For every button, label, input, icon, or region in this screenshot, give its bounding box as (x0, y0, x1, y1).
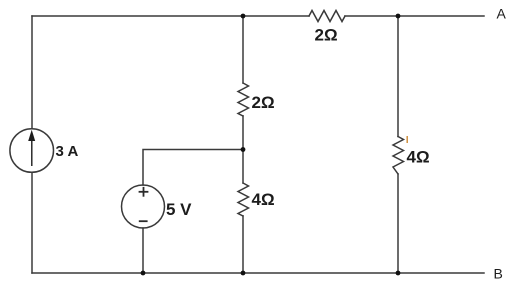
junction dot top middle node (241, 14, 246, 19)
wire R4 to bottom rail (397, 174, 399, 273)
junction dot bottom right (396, 271, 401, 276)
resistor R3 4ohm vertical (238, 183, 249, 216)
wire middle branch top (top node to R2) (242, 16, 244, 83)
wire voltage source to bottom rail (142, 228, 144, 273)
wire top-left segment (node top-left corner to resistor R1) (32, 15, 309, 17)
junction dot bottom middle (241, 271, 246, 276)
wire left branch bottom (current source to bottom rail) (31, 173, 33, 274)
wire R3 to bottom rail (242, 216, 244, 273)
voltage source plus sign (139, 187, 149, 221)
resistor R2 2ohm vertical (238, 83, 249, 116)
stray orange artifact mark (407, 136, 408, 143)
resistor R1 2ohm horizontal (309, 11, 345, 22)
current source arrow (28, 130, 35, 166)
wire R1 to terminal A (345, 15, 484, 17)
svg-text:A: A (497, 6, 507, 22)
resistor R4 4ohm vertical (393, 137, 404, 175)
wire right branch top (top node to R4) (397, 16, 399, 137)
wire R2 to middle node (242, 116, 244, 150)
junction dot top right node (396, 14, 401, 19)
svg-text:2Ω: 2Ω (315, 26, 338, 45)
junction dot middle node (241, 147, 246, 152)
voltage source V1 circle (122, 185, 165, 228)
voltage source minus sign (139, 220, 148, 222)
wire bottom rail (node B rail) (32, 272, 484, 274)
wire middle node to voltage source top (143, 150, 243, 186)
junction dot bottom under V1 (141, 271, 146, 276)
svg-text:B: B (494, 266, 503, 281)
wire left branch top (corner to current source) (31, 16, 33, 129)
svg-text:2Ω: 2Ω (252, 93, 275, 112)
wire middle node to R3 (242, 150, 244, 184)
current source I1 circle (10, 129, 54, 173)
svg-text:5 V: 5 V (166, 200, 192, 219)
svg-text:3 A: 3 A (56, 143, 79, 160)
svg-text:4Ω: 4Ω (407, 148, 430, 167)
svg-text:4Ω: 4Ω (252, 190, 275, 209)
